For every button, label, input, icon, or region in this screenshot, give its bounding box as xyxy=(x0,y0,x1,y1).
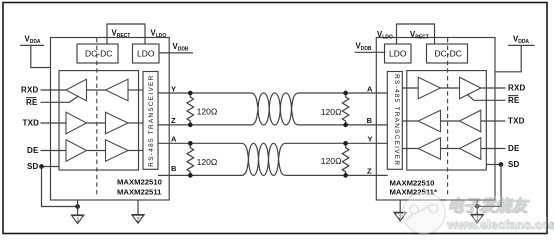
LDO block (right) xyxy=(385,44,412,63)
wire row1 from strip (right IC) xyxy=(402,87,418,89)
resistor R3 120ohm (right top termination) xyxy=(321,93,349,125)
wire row3 mid (left IC) xyxy=(87,150,106,152)
svg-text:DE: DE xyxy=(508,144,520,153)
IC U2 MAXM22510 (right) outer box xyxy=(376,38,495,201)
svg-text:RXD: RXD xyxy=(508,84,526,93)
driver buffer row2 left-half (right IC) xyxy=(418,110,440,132)
svg-text:VLDO: VLDO xyxy=(151,29,167,40)
wire row2 mid (right IC) xyxy=(441,120,460,122)
wire VDDB output (left) xyxy=(159,52,193,54)
watermark logo circle xyxy=(403,192,445,234)
watermark text overlay translucency xyxy=(446,196,546,212)
svg-text:Y: Y xyxy=(368,135,373,144)
IC U1 MAXM22510 (left) outer box xyxy=(51,38,170,201)
wire VRECT to LDO (left) xyxy=(107,24,145,44)
wire bus B to Z (bottom pair lower, with twist) xyxy=(158,143,388,175)
receiver buffer row1 left-half (right IC) xyxy=(418,77,440,99)
power rail VDDA (left) xyxy=(20,35,50,68)
resistor R1 120ohm (left top termination) xyxy=(187,93,218,125)
svg-text:120Ω: 120Ω xyxy=(197,107,218,117)
svg-text:120Ω: 120Ω xyxy=(197,157,218,167)
junction dot ground stub (left) xyxy=(75,204,80,209)
wire SD to ground (right) xyxy=(477,165,501,207)
svg-text:A: A xyxy=(171,134,177,143)
svg-text:120Ω: 120Ω xyxy=(321,107,342,117)
svg-text:MAXM22510: MAXM22510 xyxy=(117,177,162,186)
junction dot R1 top xyxy=(188,91,193,96)
junction dot R1 bottom xyxy=(188,123,193,128)
svg-text:VRECT: VRECT xyxy=(112,29,131,40)
DC-DC converter block (left) xyxy=(77,44,118,63)
driver buffer row2 right-half (left IC) xyxy=(106,112,129,134)
svg-text:RE: RE xyxy=(26,98,38,107)
wire bus Y to A (top pair upper, with twist) xyxy=(158,93,388,125)
receiver buffer row1 left-half (left IC) xyxy=(66,79,87,101)
driver buffer row2 right-half (right IC) xyxy=(460,110,481,132)
svg-text:RE: RE xyxy=(508,96,520,105)
svg-text:VDDB: VDDB xyxy=(356,41,372,52)
svg-text:VDDB: VDDB xyxy=(173,42,189,53)
svg-text:RS-485 TRANSCEIVER: RS-485 TRANSCEIVER xyxy=(393,74,400,166)
svg-text:VDDA: VDDA xyxy=(513,35,529,46)
wire row3 from strip (right IC) xyxy=(402,148,418,150)
wire bus Z to B (top pair lower, with twist) xyxy=(158,93,388,125)
wire SD to ground (left) xyxy=(42,167,78,207)
transceiver inner box (left) xyxy=(59,71,139,170)
pin SD (right) wire and label xyxy=(486,160,519,169)
part number label (left) xyxy=(117,177,162,196)
svg-text:Z: Z xyxy=(367,166,372,175)
pin RXD (left) wire and label xyxy=(21,85,66,94)
svg-text:SD: SD xyxy=(508,160,520,169)
junction dot ground stub (right) xyxy=(475,204,480,209)
ground GND2 (left) xyxy=(131,215,145,224)
pin TXD (left) wire and label xyxy=(23,119,67,128)
wire row1 to strip (left IC) xyxy=(128,89,143,91)
wire row2 from strip (right IC) xyxy=(402,120,418,122)
svg-text:VLDO: VLDO xyxy=(377,30,393,41)
wire row3 to strip (left IC) xyxy=(128,150,143,152)
watermark chinese text xyxy=(447,197,531,216)
svg-text:DC-DC: DC-DC xyxy=(85,49,112,59)
wire row1 mid (right IC) xyxy=(441,87,460,89)
pin RE (right) wire, diagonal and label xyxy=(467,94,520,105)
wire row1 mid (left IC) xyxy=(87,89,106,91)
svg-text:Y: Y xyxy=(171,84,176,93)
junction dot SD (left) xyxy=(39,164,44,169)
driver buffer row3 right-half (right IC) xyxy=(460,138,481,160)
svg-text:Z: Z xyxy=(171,116,176,125)
svg-text:B: B xyxy=(367,116,373,125)
wire ground stub GND1 (left) xyxy=(77,200,79,215)
svg-text:VDDA: VDDA xyxy=(25,35,41,46)
wire VRECT to LDO (right) xyxy=(397,24,435,44)
pin DE (left) wire and label xyxy=(27,146,66,155)
ground GND1 (right) xyxy=(470,214,484,223)
resistor R4 120ohm (right bottom termination) xyxy=(321,143,349,175)
driver buffer row3 right-half (left IC) xyxy=(106,140,129,162)
svg-text:DC-DC: DC-DC xyxy=(435,49,462,59)
pin SD (left) wire and label xyxy=(27,162,59,171)
part number label (right) xyxy=(390,179,437,197)
pin TXD (right) wire and label xyxy=(481,117,525,126)
watermark url text xyxy=(446,217,554,232)
receiver buffer row1 right-half (left IC) xyxy=(106,79,129,101)
resistor R2 120ohm (left bottom termination) xyxy=(187,143,218,175)
junction dot R2 bottom xyxy=(188,173,193,178)
svg-text:A: A xyxy=(367,84,373,93)
junction dot R3 bottom xyxy=(343,123,348,128)
svg-text:RXD: RXD xyxy=(21,85,39,94)
driver buffer row2 left-half (left IC) xyxy=(66,112,87,134)
isolation barrier dashed line (left IC) xyxy=(96,38,98,197)
ground GND1 (left) xyxy=(71,215,85,224)
svg-text:120Ω: 120Ω xyxy=(321,156,342,166)
junction dot R2 top xyxy=(188,141,193,146)
junction dot R4 bottom xyxy=(343,173,348,178)
watermark overlay translucency xyxy=(403,192,445,234)
DC-DC converter block (right) xyxy=(427,44,468,63)
svg-text:LDO: LDO xyxy=(389,49,407,59)
pin RXD (right) wire and label xyxy=(481,84,526,93)
power rail VDDA (right) xyxy=(495,35,535,72)
RS-485 transceiver label strip (right) xyxy=(387,72,402,170)
svg-text:B: B xyxy=(171,164,177,173)
isolation barrier dashed line (right IC) xyxy=(447,38,449,197)
svg-text:MAXM22511: MAXM22511 xyxy=(117,187,162,196)
svg-text:LDO: LDO xyxy=(137,49,155,59)
junction dot R4 top xyxy=(343,141,348,146)
transceiver inner box (right) xyxy=(407,71,487,170)
wire ground stub GND2 (right) xyxy=(399,200,401,212)
wire row2 mid (left IC) xyxy=(87,122,106,124)
junction dot R3 top xyxy=(343,91,348,96)
wire bus A to Y (bottom pair upper, with twist) xyxy=(158,143,388,175)
svg-text:SD: SD xyxy=(27,162,39,171)
wire ground stub GND1 (right) xyxy=(476,200,478,214)
wire row2 to strip (left IC) xyxy=(128,122,143,124)
junction dot SD (right) xyxy=(499,162,504,167)
svg-text:VRECT: VRECT xyxy=(410,30,429,41)
svg-text:RS-485 TRANSCEIVER: RS-485 TRANSCEIVER xyxy=(148,75,155,167)
pin DE (right) wire and label xyxy=(481,144,520,153)
wire VDDB input (right) xyxy=(355,51,386,53)
svg-text:TXD: TXD xyxy=(508,117,525,126)
pin RE (left) wire, diagonal and label xyxy=(26,96,78,107)
LDO block (left) xyxy=(133,44,160,63)
receiver buffer row1 right-half (right IC) xyxy=(460,77,481,99)
driver buffer row3 left-half (left IC) xyxy=(66,140,87,162)
wire row3 mid (right IC) xyxy=(441,148,460,150)
svg-text:MAXM22510: MAXM22510 xyxy=(390,179,435,188)
driver buffer row3 left-half (right IC) xyxy=(418,138,440,160)
RS-485 transceiver label strip (left) xyxy=(143,72,158,170)
svg-text:DE: DE xyxy=(27,146,39,155)
wire ground stub GND2 (left) xyxy=(137,200,139,215)
ground GND2 (right) xyxy=(393,212,407,221)
svg-text:TXD: TXD xyxy=(23,119,40,128)
